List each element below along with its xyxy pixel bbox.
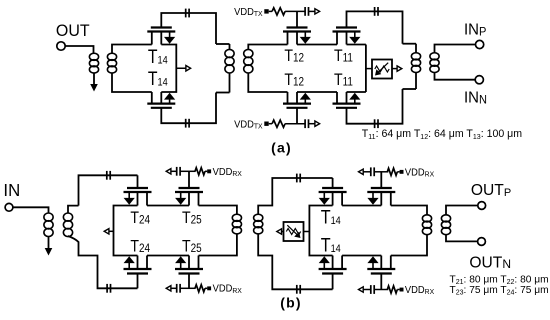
terminal IN [5, 203, 13, 211]
transistor T14 rx top [322, 187, 343, 189]
VDD_RX square b2 top [400, 170, 404, 174]
open arrow VDD_RX b1 bottom [166, 286, 171, 291]
wire VDD to resistor bottom [269, 123, 272, 125]
resistor R3 bottom [387, 286, 397, 293]
transistor T12 top [287, 26, 308, 28]
wire TR1 primary to ground arrow [93, 73, 95, 85]
transistor cascode rx bottom [371, 272, 392, 274]
rail T24-T25 bottom [147, 255, 189, 257]
wire TR2 primary top lead [216, 43, 230, 45]
wire TR2 secondary bottom to T12b [248, 73, 287, 92]
rail T25 to TR5 top [199, 206, 237, 215]
svg-text:(b): (b) [280, 294, 301, 310]
transistor T11 bottom [336, 107, 357, 109]
open arrow VDD_RX b1 top [166, 169, 171, 174]
transformer TR3 primary winding [411, 53, 420, 60]
wire resistor to T12 gate node bottom [285, 123, 305, 125]
wire cap to arrow top [308, 10, 315, 12]
rail T11 to right rail bottom [347, 91, 366, 93]
transistor T11 top [336, 26, 357, 28]
capacitor C3 top [374, 7, 376, 16]
rail T12-T11 bottom [297, 91, 337, 93]
svg-text:OUTN: OUTN [469, 254, 511, 271]
wire IN to transformer TR4 [13, 207, 49, 213]
wire TR3 primary bottom lead [415, 73, 417, 89]
transistor T25 bottom [179, 272, 200, 274]
ground arrow TR1 [90, 84, 98, 92]
wire cap to arrow bottom [308, 123, 315, 125]
open arrow box A [397, 66, 402, 71]
capacitor C1 bottom [185, 119, 187, 128]
wire box to arrow [392, 68, 397, 70]
wire box B to central rail [304, 231, 310, 233]
wire TR3 secondary top to IN_P [435, 45, 476, 53]
capacitor C4 top [106, 171, 108, 180]
wire OUT to transformer TR1 [65, 46, 94, 53]
transformer TR6 primary winding [422, 215, 431, 222]
resistor R2 bottom [195, 285, 205, 292]
wire TR6 secondary bottom to OUT_N [446, 235, 478, 242]
resistor R1 top [272, 8, 285, 15]
wire arrow to cap b2 top [363, 171, 372, 173]
wire T12 bottom gate [296, 108, 298, 124]
transformer TR2 secondary winding [244, 49, 253, 57]
svg-text:T11: 64 μm T12: 64 μm T13: 1: T11: 64 μm T12: 64 μm T13: 100 μm [362, 128, 522, 141]
capacitor C7 bottom [370, 285, 372, 294]
transistor T14 top [151, 26, 172, 28]
wire TR5 secondary bottom lead [258, 234, 332, 289]
central rail cell b2 [309, 206, 332, 256]
wire T14 bottom gate to cap rail [161, 93, 216, 124]
wire T24 top gate [137, 175, 139, 188]
resistor R1 bottom [272, 120, 285, 127]
transformer TR3 secondary winding [430, 53, 439, 60]
open arrow top VDD [315, 9, 320, 14]
wire TR3 primary top lead [403, 43, 417, 45]
wire cap to cascode gate node bottom [374, 289, 389, 291]
open arrow VDD_RX b2 bottom [359, 287, 364, 292]
svg-text:VDDRX: VDDRX [405, 167, 434, 179]
rail T24-T25 top [147, 205, 189, 207]
transistor T24 top [127, 187, 148, 189]
wire cap to T25 gate node bottom [180, 287, 196, 289]
wire TR5 secondary top lead [258, 178, 332, 214]
open arrow box B [277, 229, 282, 234]
wire TR3 secondary bottom to IN_N [435, 73, 476, 80]
left rail cell b1 top [114, 206, 138, 256]
svg-text:VDDRX: VDDRX [405, 284, 434, 296]
wire arrow to cap b1 top [170, 170, 177, 172]
VDD_TX square top [264, 9, 268, 13]
wire resistor to T12 gate node top [285, 10, 305, 12]
terminal OUT_N [478, 238, 486, 246]
svg-text:VDDTX: VDDTX [234, 6, 263, 18]
stage1 source rail top [161, 45, 176, 93]
wire TR1 secondary top to T14a drain [112, 45, 152, 54]
wire T11 top gate to cap rail [347, 11, 403, 43]
terminal IN_N [475, 76, 483, 84]
rail T14-cascode bottom [342, 255, 381, 257]
wire cap to T25 gate node top [180, 170, 196, 172]
capacitor C3 bottom [374, 119, 376, 128]
transformer TR5 secondary winding [254, 214, 263, 221]
wire arrow to box B [281, 231, 284, 233]
wire TR4 secondary top to cap rail [68, 206, 79, 213]
wire right rail to box [366, 68, 372, 70]
cell b1 tap arrow [109, 230, 114, 232]
capacitor C1 top [185, 9, 187, 18]
variable resistor box A [372, 60, 392, 79]
VDD_RX square bottom [207, 286, 211, 290]
transformer TR4 secondary winding [63, 213, 72, 221]
wire T25 top gate [188, 171, 190, 188]
wire T12 top gate [296, 11, 298, 27]
transformer TR5 primary winding [232, 214, 241, 221]
svg-text:(a): (a) [271, 140, 292, 156]
terminal OUT_P [478, 202, 486, 210]
svg-text:T23: 75 μm T24: 75 μm: T23: 75 μm T24: 75 μm [450, 285, 549, 297]
wire arrow to cap b2 bottom [363, 289, 372, 291]
wire T14 rx bottom gate [332, 274, 334, 290]
right rail cell2 [365, 45, 367, 93]
wire TR6 secondary top to OUT_P [446, 206, 479, 215]
svg-text:OUT: OUT [56, 22, 90, 41]
transformer TR2 primary winding [225, 49, 234, 57]
wire cascode rx bottom gate [380, 274, 382, 290]
wire TR1 secondary bottom to T14b drain [112, 73, 152, 92]
rail cascode to TR6 top [391, 206, 427, 215]
capacitor C7 top [370, 167, 372, 176]
terminal IN_P [476, 40, 484, 48]
ground arrow TR4 [45, 248, 53, 256]
wire resistor to square b1 top [205, 170, 207, 172]
svg-text:VDDTX: VDDTX [234, 119, 263, 131]
svg-text:VDDRX: VDDRX [213, 166, 242, 178]
resistor R3 top [387, 168, 397, 175]
capacitor C2 top [304, 7, 306, 16]
rail T12-T11 top [297, 44, 337, 46]
capacitor C5 bottom [176, 284, 178, 293]
wire TR4 primary to ground arrow [48, 237, 50, 249]
capacitor C5 top [176, 167, 178, 176]
capacitor C6 bottom [296, 285, 298, 294]
transistor T14 bottom [151, 107, 172, 109]
rail T11 to right rail top [347, 44, 366, 46]
wire resistor to square b1 bottom [205, 287, 207, 289]
open arrow bottom VDD [315, 121, 320, 126]
terminal OUT [57, 42, 65, 50]
wire cascode rx top gate [380, 172, 382, 188]
svg-text:VDDRX: VDDRX [213, 283, 242, 295]
transformer TR1 secondary winding [107, 53, 116, 60]
wire T14 rx top gate [332, 178, 334, 188]
transistor T25 top [179, 187, 200, 189]
wire arrow to cap b1 bottom [170, 287, 177, 289]
VDD_RX square top [207, 169, 211, 173]
svg-text:IN: IN [3, 179, 20, 199]
VDD_TX square bottom [264, 122, 268, 126]
transformer TR4 primary winding [44, 213, 53, 221]
wire TR2 secondary top to T12a [248, 45, 287, 50]
open arrow VDD_RX b2 top [359, 169, 364, 174]
rail T25 to TR5 bottom [199, 234, 237, 256]
transistor T12 bottom [287, 107, 308, 109]
wire cap to cascode gate node top [374, 171, 389, 173]
transistor T24 bottom [127, 272, 148, 274]
transistor cascode rx top [371, 187, 392, 189]
stage1 tap arrow [176, 67, 186, 69]
rail cascode to TR6 bottom [391, 235, 427, 256]
VDD_RX square b2 bottom [400, 288, 404, 292]
wire VDD to resistor top [269, 10, 272, 12]
wire T14 top gate to cap rail [161, 13, 216, 44]
transformer TR1 primary winding [89, 53, 98, 60]
resistor R2 top [195, 168, 205, 175]
transistor T14 rx bottom [322, 272, 343, 274]
wire T25 bottom gate [188, 274, 190, 289]
transformer TR6 secondary winding [441, 215, 450, 222]
wire TR4 secondary bottom to cap rail [68, 236, 138, 288]
capacitor C2 bottom [304, 119, 306, 128]
wire resistor to square b2 bottom [397, 289, 399, 291]
capacitor C6 top [296, 174, 298, 183]
wire T24 bottom gate [137, 274, 139, 289]
wire T11 bottom gate to cap rail [347, 89, 403, 124]
rail T14-cascode top [342, 205, 381, 207]
wire TR2 primary bottom lead [229, 73, 231, 93]
wire resistor to square b2 top [397, 171, 399, 173]
variable resistor box B [284, 222, 304, 241]
capacitor C4 bottom [106, 284, 108, 293]
